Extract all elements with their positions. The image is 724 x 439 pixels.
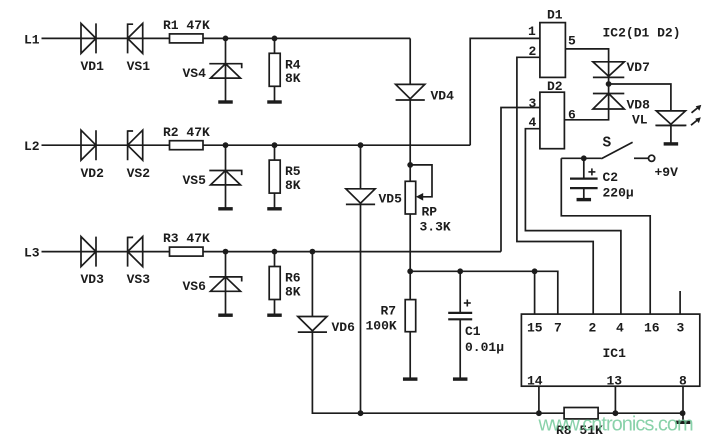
junction node rail pin15 — [532, 268, 538, 274]
ground VS5 — [218, 207, 233, 210]
zener diode VS3 — [128, 237, 143, 267]
wire IC1 pin13 to rail — [614, 386, 616, 413]
svg-text:3: 3 — [529, 96, 537, 111]
wire D1 pin2 riser to IC1 pin2 — [517, 57, 593, 314]
diode VD3 — [81, 237, 96, 267]
diode VD4 — [396, 84, 425, 100]
junction node bottom rail VD5 — [358, 410, 364, 416]
ground VS6 — [218, 314, 233, 317]
wire VS5 to ground — [225, 185, 227, 209]
svg-text:L2: L2 — [24, 139, 40, 154]
wire D1 pin5 to VD7 — [565, 49, 608, 62]
resistor R2 — [170, 141, 204, 150]
label C2 polarity + — [588, 171, 595, 173]
svg-text:15: 15 — [527, 321, 543, 336]
ground R7 — [403, 377, 418, 380]
svg-text:R2 47K: R2 47K — [163, 125, 210, 140]
svg-text:RP: RP — [422, 205, 438, 220]
svg-text:0.01μ: 0.01μ — [465, 340, 504, 355]
svg-text:2: 2 — [589, 321, 597, 336]
svg-text:VD8: VD8 — [627, 98, 651, 113]
capacitor C1 to ground — [459, 319, 461, 379]
junction node row2 VS column — [223, 142, 229, 148]
wire VD5 to bottom rail — [360, 204, 362, 413]
resistor R8 — [564, 408, 598, 419]
junction node rail pin13 — [613, 410, 619, 416]
wire bottom rail — [361, 412, 684, 414]
svg-text:R4: R4 — [285, 57, 301, 72]
wire VS5 stub — [225, 145, 227, 185]
wire rail to R7 — [409, 271, 411, 299]
svg-text:VL: VL — [632, 113, 648, 128]
wire pin8 to ground — [682, 413, 684, 421]
svg-text:8K: 8K — [285, 178, 301, 193]
svg-text:VD7: VD7 — [627, 60, 650, 75]
wire R4 stub — [274, 38, 276, 53]
junction node L2 VD5 column — [358, 142, 364, 148]
svg-text:L1: L1 — [24, 32, 40, 47]
potentiometer RP — [405, 181, 416, 214]
capacitor C2 — [570, 178, 598, 180]
wire D2 pin3 to L3 riser — [501, 108, 540, 252]
wire D2 pin4 riser to IC1 pin4 — [525, 129, 621, 314]
wire L3 to VD6 — [311, 252, 313, 317]
svg-text:5: 5 — [568, 34, 576, 49]
svg-text:IC2(D1 D2): IC2(D1 D2) — [603, 26, 681, 41]
svg-text:100K: 100K — [366, 319, 397, 334]
wire L1 to right — [203, 37, 410, 39]
svg-text:R3 47K: R3 47K — [163, 231, 210, 246]
junction node C2 — [581, 155, 587, 161]
diode VD5 — [346, 189, 375, 205]
zener diode VS6 — [209, 277, 241, 291]
svg-text:7: 7 — [554, 321, 562, 336]
wire IC1 pin8 to rail — [682, 386, 684, 413]
wire VD4 to RP — [409, 100, 411, 181]
wire R5 stub — [274, 145, 276, 160]
junction node row1 VS column — [223, 36, 229, 42]
junction node VD7 VD8 — [606, 81, 612, 87]
capacitor C2 to ground — [583, 188, 585, 199]
junction node RP top — [407, 162, 413, 168]
wire RP wiper loop — [410, 165, 432, 197]
diode VD1 — [81, 23, 96, 53]
ground VS4 — [218, 100, 233, 103]
wire VS6 to ground — [225, 291, 227, 315]
wire VS4 stub — [225, 38, 227, 78]
junction node row3 VD6 column — [310, 249, 316, 255]
svg-text:C2: C2 — [603, 170, 619, 185]
svg-text:3.3K: 3.3K — [420, 220, 451, 235]
wire L3 to right — [203, 251, 501, 253]
svg-text:L3: L3 — [24, 246, 40, 261]
svg-text:www.cntronics.com: www.cntronics.com — [538, 414, 693, 436]
junction node rail C1 — [457, 268, 463, 274]
wire switch node to IC1 pin16 — [561, 158, 650, 314]
wire D2 pin6 to VD8 — [564, 109, 608, 120]
svg-text:VD6: VD6 — [332, 320, 356, 335]
wire VS6 stub — [225, 252, 227, 292]
svg-text:4: 4 — [529, 115, 537, 130]
ground R5 — [267, 207, 282, 210]
resistor R6 — [269, 267, 280, 300]
resistor R5 — [269, 160, 280, 193]
svg-text:16: 16 — [644, 321, 660, 336]
junction node rail pin14 — [536, 410, 542, 416]
ground VL — [664, 142, 679, 145]
wire R6 to ground — [274, 300, 276, 316]
junction node row3 R column — [272, 249, 278, 255]
wire L1 lead — [42, 37, 170, 39]
svg-text:14: 14 — [527, 374, 543, 389]
svg-text:13: 13 — [607, 374, 623, 389]
diode VD6 — [298, 317, 327, 333]
svg-text:VS1: VS1 — [127, 59, 151, 74]
wire R5 to ground — [274, 193, 276, 209]
junction node rail pin8 — [680, 410, 686, 416]
svg-text:VD2: VD2 — [81, 166, 105, 181]
junction node rail at RP column — [407, 268, 413, 274]
svg-text:VD3: VD3 — [81, 272, 105, 287]
svg-text:R7: R7 — [381, 304, 397, 319]
resistor R4 — [269, 53, 280, 86]
wire VS4 to ground — [225, 78, 227, 102]
svg-text:D1: D1 — [547, 8, 563, 23]
IC U1 IC1 box — [521, 314, 699, 386]
zener diode VS4 — [209, 64, 241, 78]
wire IC1 pin3 stub antenna — [679, 291, 681, 314]
capacitor C1 — [448, 312, 472, 314]
LED VL light arrow 2 — [691, 120, 698, 126]
svg-text:VS3: VS3 — [127, 272, 151, 287]
block D2 — [540, 92, 565, 149]
ground pin8 — [676, 421, 691, 424]
wire L1 row corner down to VD4 — [409, 38, 411, 84]
wire VD6 to bottom rail corner — [312, 332, 360, 413]
svg-text:D2: D2 — [547, 79, 563, 94]
zener diode VS5 — [209, 171, 241, 185]
switch S blade — [601, 142, 632, 159]
wire L2 to right — [203, 144, 470, 146]
svg-text:R6: R6 — [285, 271, 301, 286]
wire R4 to ground — [274, 86, 276, 102]
capacitor C1 top lead — [459, 271, 461, 312]
junction node row3 VS column — [223, 249, 229, 255]
wire L2 lead — [42, 144, 170, 146]
ground R6 — [267, 314, 282, 317]
ground C2 — [577, 198, 592, 201]
LED VL light arrow 1 — [692, 107, 699, 113]
wire pin15 riser — [534, 271, 536, 314]
wire control rail — [410, 271, 558, 314]
svg-text:IC1: IC1 — [603, 346, 627, 361]
svg-text:S: S — [603, 136, 612, 152]
wire R6 stub — [274, 252, 276, 267]
svg-text:R1 47K: R1 47K — [163, 18, 210, 33]
svg-text:VD4: VD4 — [431, 89, 455, 104]
svg-text:VS5: VS5 — [183, 173, 207, 188]
resistor R7 — [405, 300, 416, 332]
wire L2 to VD5 — [360, 145, 362, 189]
wire switch node — [561, 157, 601, 159]
diode VD7 — [608, 62, 610, 78]
wire R7 to ground — [409, 332, 411, 379]
svg-text:8K: 8K — [285, 284, 301, 299]
svg-text:4: 4 — [616, 321, 624, 336]
svg-text:220μ: 220μ — [603, 186, 634, 201]
svg-text:8K: 8K — [285, 71, 301, 86]
wire junction to VL — [609, 84, 671, 111]
block D1 — [540, 23, 566, 78]
wire VL to ground — [670, 125, 672, 142]
junction node row1 R column — [272, 36, 278, 42]
svg-text:1: 1 — [528, 24, 536, 39]
svg-text:R5: R5 — [285, 164, 301, 179]
svg-text:VS2: VS2 — [127, 166, 151, 181]
junction node row2 R column — [272, 142, 278, 148]
zener diode VS1 — [128, 23, 143, 53]
wire L3 lead — [42, 251, 170, 253]
wire RP to rail — [409, 214, 411, 271]
RP wiper arrow — [416, 193, 423, 201]
svg-text:VS6: VS6 — [183, 279, 207, 294]
resistor R3 — [170, 247, 204, 256]
svg-text:+9V: +9V — [655, 165, 679, 180]
svg-text:3: 3 — [677, 321, 685, 336]
wire battery stub — [634, 157, 648, 159]
capacitor C2 top lead — [583, 158, 585, 178]
wire IC1 pin14 to rail — [538, 386, 540, 413]
resistor R1 — [170, 34, 204, 43]
ground R4 — [267, 100, 282, 103]
wire VD7 VD8 junction — [608, 77, 610, 93]
label C1 polarity + — [464, 302, 471, 304]
svg-text:VS4: VS4 — [183, 66, 207, 81]
svg-text:VD5: VD5 — [379, 192, 403, 207]
LED VL — [656, 111, 685, 126]
svg-text:C1: C1 — [465, 324, 481, 339]
ground C1 — [453, 377, 468, 380]
svg-text:VD1: VD1 — [81, 59, 105, 74]
wire D1 pin1 to L2 riser — [470, 38, 540, 145]
diode VD8 — [608, 94, 610, 110]
battery terminal circle — [649, 155, 655, 161]
diode VD2 — [81, 130, 96, 160]
zener diode VS2 — [128, 130, 143, 160]
